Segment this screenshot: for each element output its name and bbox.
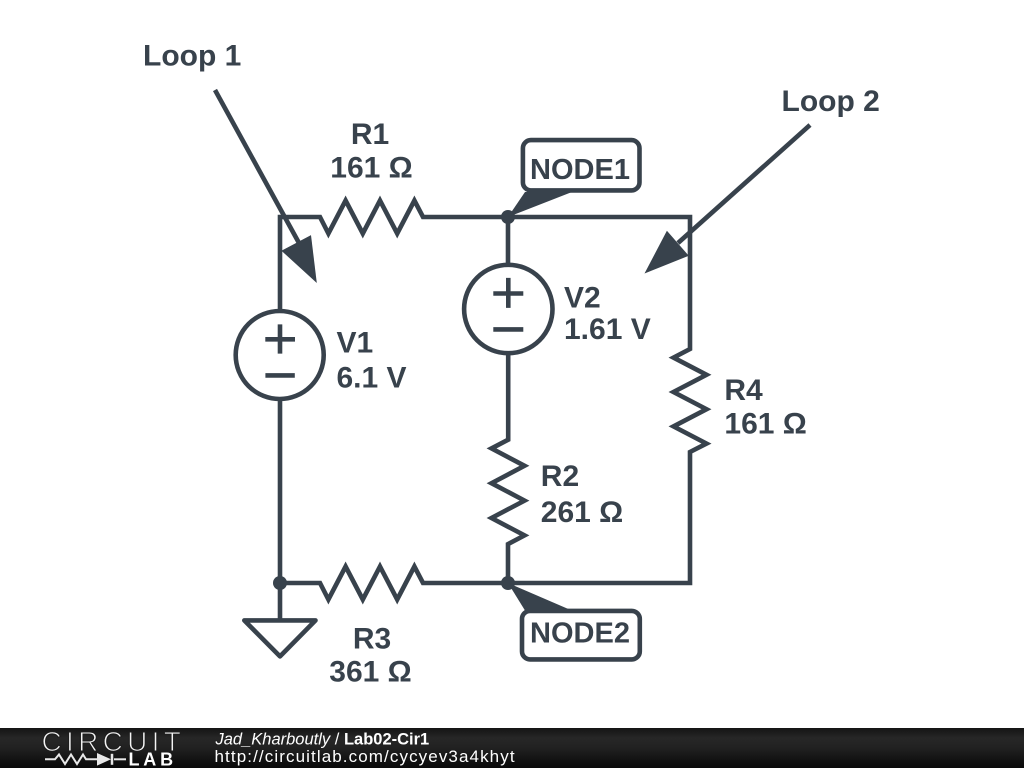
svg-text:261 Ω: 261 Ω <box>541 496 623 529</box>
svg-text:R1: R1 <box>351 118 389 151</box>
svg-text:Loop 2: Loop 2 <box>782 85 880 118</box>
svg-text:161 Ω: 161 Ω <box>330 152 412 185</box>
svg-text:R2: R2 <box>541 460 579 493</box>
svg-text:http://circuitlab.com/cycyev3a: http://circuitlab.com/cycyev3a4khyt <box>215 747 516 766</box>
svg-text:R4: R4 <box>724 374 763 407</box>
svg-text:Jad_Kharboutly / Lab02-Cir1: Jad_Kharboutly / Lab02-Cir1 <box>215 731 430 749</box>
svg-text:LAB: LAB <box>129 750 177 768</box>
svg-text:NODE2: NODE2 <box>530 618 630 650</box>
svg-text:6.1 V: 6.1 V <box>337 362 407 395</box>
svg-text:Loop 1: Loop 1 <box>143 40 241 73</box>
svg-text:1.61 V: 1.61 V <box>564 313 651 346</box>
svg-text:V1: V1 <box>337 327 374 360</box>
svg-text:NODE1: NODE1 <box>530 154 630 186</box>
svg-text:V2: V2 <box>564 282 601 315</box>
svg-text:R3: R3 <box>353 623 391 656</box>
svg-text:161 Ω: 161 Ω <box>724 408 806 441</box>
svg-text:361 Ω: 361 Ω <box>329 656 411 689</box>
